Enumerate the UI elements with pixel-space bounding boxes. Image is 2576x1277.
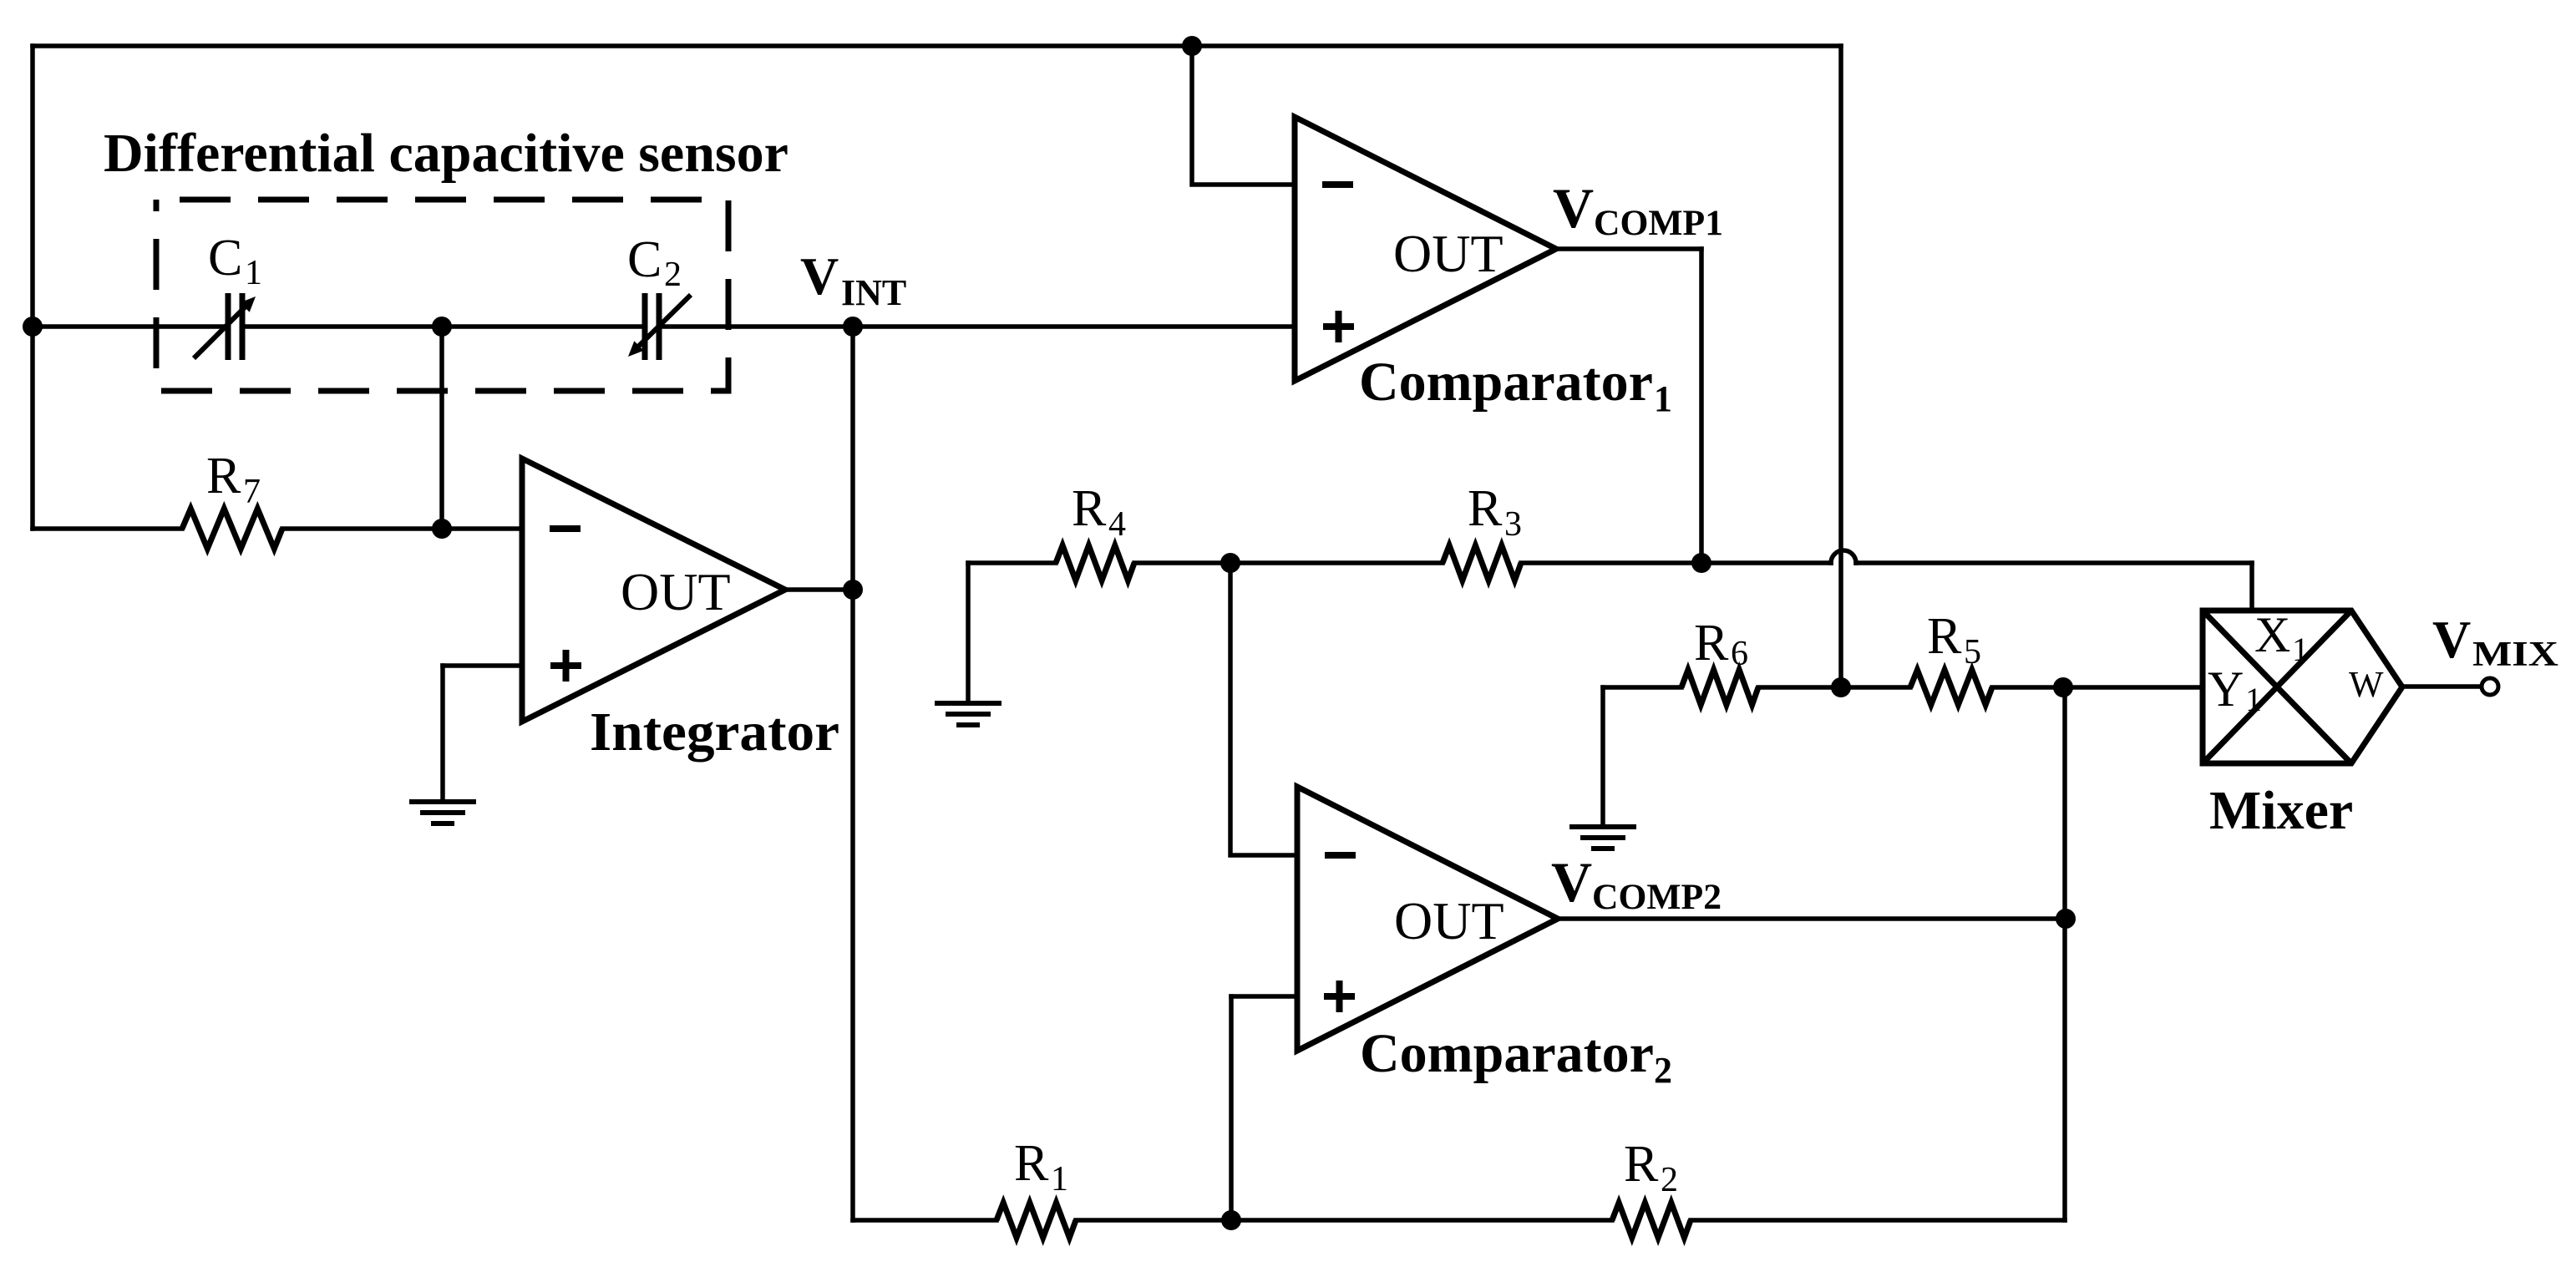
svg-text:7: 7 <box>243 473 261 511</box>
svg-text:1: 1 <box>1654 378 1672 419</box>
svg-text:X: X <box>2254 607 2290 662</box>
svg-text:Mixer: Mixer <box>2209 780 2353 841</box>
svg-text:1: 1 <box>1051 1160 1068 1198</box>
svg-text:V: V <box>1553 176 1594 240</box>
svg-text:R: R <box>1468 480 1503 537</box>
svg-text:5: 5 <box>1964 633 1981 671</box>
svg-text:6: 6 <box>1731 635 1748 673</box>
svg-text:MIX: MIX <box>2472 636 2558 674</box>
svg-text:Comparator: Comparator <box>1360 1023 1654 1084</box>
svg-text:2: 2 <box>664 256 682 294</box>
svg-text:R: R <box>1694 615 1729 671</box>
svg-text:R: R <box>1014 1135 1049 1192</box>
svg-text:R: R <box>1624 1136 1659 1193</box>
svg-text:4: 4 <box>1108 505 1126 544</box>
svg-text:V: V <box>1551 850 1592 914</box>
svg-text:V: V <box>800 246 839 306</box>
svg-text:1: 1 <box>245 254 262 292</box>
svg-text:Y: Y <box>2208 661 2244 717</box>
svg-text:V: V <box>2432 610 2471 669</box>
svg-text:1: 1 <box>2292 631 2309 668</box>
svg-text:OUT: OUT <box>1393 224 1504 283</box>
svg-text:COMP2: COMP2 <box>1592 878 1722 917</box>
svg-text:2: 2 <box>1654 1050 1672 1091</box>
svg-text:OUT: OUT <box>621 562 731 621</box>
svg-text:3: 3 <box>1504 505 1522 544</box>
svg-text:Comparator: Comparator <box>1359 352 1653 413</box>
svg-text:2: 2 <box>1661 1161 1678 1199</box>
svg-text:C: C <box>208 230 242 286</box>
svg-text:R: R <box>1927 608 1962 665</box>
svg-text:C: C <box>627 231 662 288</box>
svg-text:COMP1: COMP1 <box>1594 204 1723 243</box>
svg-text:INT: INT <box>841 272 906 313</box>
svg-text:1: 1 <box>2245 681 2262 718</box>
svg-text:Integrator: Integrator <box>590 702 839 763</box>
svg-text:Differential capacitive sensor: Differential capacitive sensor <box>104 123 789 184</box>
svg-text:W: W <box>2349 664 2384 705</box>
svg-text:OUT: OUT <box>1394 891 1504 950</box>
svg-text:R: R <box>1072 480 1107 537</box>
svg-text:R: R <box>206 448 241 504</box>
